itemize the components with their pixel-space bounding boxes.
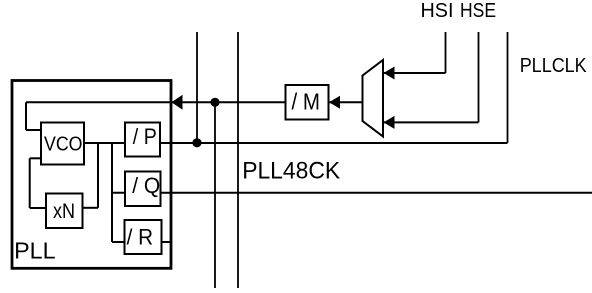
svg-text:/ P: / P (133, 124, 157, 149)
svg-text:VCO: VCO (44, 134, 83, 156)
svg-text:xN: xN (53, 200, 75, 223)
svg-text:/ Q: / Q (132, 173, 160, 198)
svg-text:HSI: HSI (421, 0, 454, 22)
svg-text:PLL48CK: PLL48CK (242, 158, 340, 185)
svg-text:/ R: / R (127, 225, 154, 250)
svg-text:HSE: HSE (460, 0, 496, 22)
svg-text:PLL: PLL (14, 238, 56, 264)
svg-text:PLLCLK: PLLCLK (520, 55, 588, 77)
svg-text:/ M: / M (292, 89, 321, 115)
